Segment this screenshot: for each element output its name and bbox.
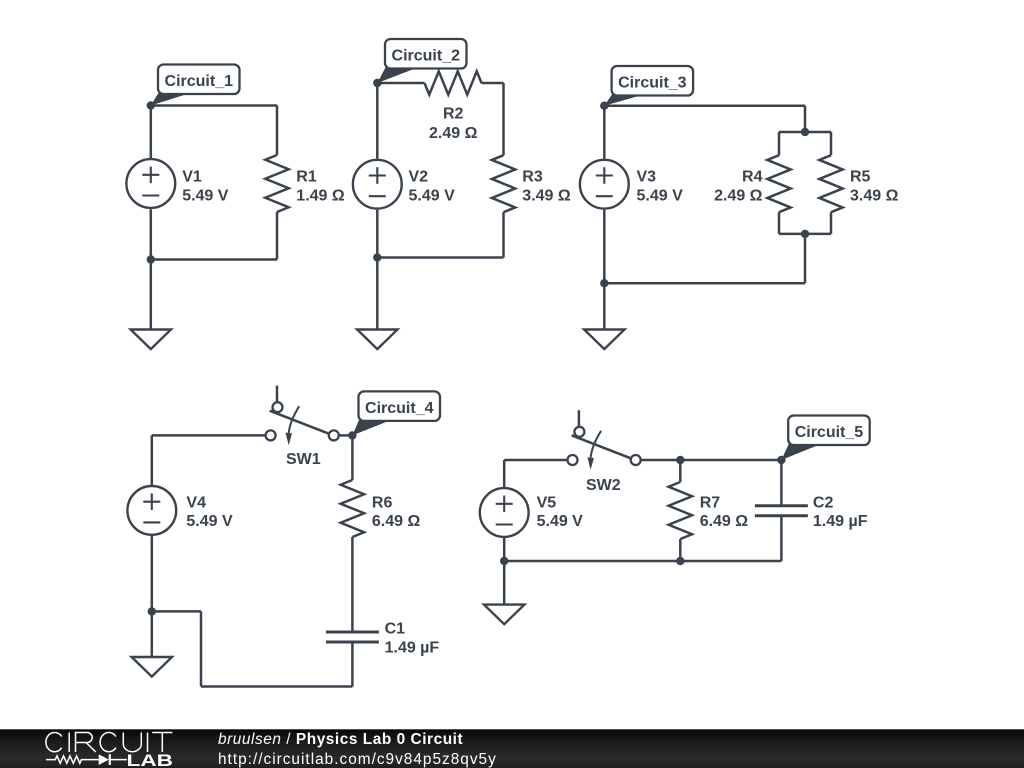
svg-text:3.49 Ω: 3.49 Ω <box>850 188 899 205</box>
svg-text:C1: C1 <box>385 621 406 638</box>
svg-text:R1: R1 <box>296 169 317 186</box>
svg-text:Circuit_4: Circuit_4 <box>365 400 434 417</box>
svg-text:bruulsen / Physics Lab 0 Circu: bruulsen / Physics Lab 0 Circuit <box>218 731 463 748</box>
svg-text:V3: V3 <box>637 169 657 186</box>
svg-text:5.49 V: 5.49 V <box>637 188 684 205</box>
svg-text:5.49 V: 5.49 V <box>182 188 229 205</box>
svg-text:R5: R5 <box>850 169 871 186</box>
svg-text:Circuit_2: Circuit_2 <box>392 47 461 64</box>
svg-text:R4: R4 <box>742 169 763 186</box>
svg-text:1.49 µF: 1.49 µF <box>385 639 440 656</box>
svg-text:C2: C2 <box>813 494 834 511</box>
svg-text:V4: V4 <box>186 494 206 511</box>
svg-text:V5: V5 <box>537 494 557 511</box>
svg-text:V1: V1 <box>182 169 202 186</box>
svg-text:5.49 V: 5.49 V <box>537 513 584 530</box>
svg-text:5.49 V: 5.49 V <box>186 513 233 530</box>
svg-text:Circuit_1: Circuit_1 <box>165 73 234 90</box>
svg-text:Circuit_5: Circuit_5 <box>795 424 864 441</box>
svg-text:SW1: SW1 <box>286 451 321 468</box>
svg-text:Circuit_3: Circuit_3 <box>618 74 687 91</box>
svg-text:R7: R7 <box>700 494 721 511</box>
svg-text:R2: R2 <box>443 105 464 122</box>
svg-text:LAB: LAB <box>127 752 174 768</box>
svg-text:R6: R6 <box>372 494 393 511</box>
svg-text:V2: V2 <box>409 169 429 186</box>
svg-text:SW2: SW2 <box>586 477 621 494</box>
svg-text:6.49 Ω: 6.49 Ω <box>700 513 749 530</box>
svg-text:3.49 Ω: 3.49 Ω <box>522 188 571 205</box>
svg-text:2.49 Ω: 2.49 Ω <box>714 188 763 205</box>
svg-text:6.49 Ω: 6.49 Ω <box>372 513 421 530</box>
svg-text:http://circuitlab.com/c9v84p5z: http://circuitlab.com/c9v84p5z8qv5y <box>218 751 497 768</box>
svg-text:2.49 Ω: 2.49 Ω <box>429 125 478 142</box>
svg-text:1.49 Ω: 1.49 Ω <box>296 188 345 205</box>
svg-text:1.49 µF: 1.49 µF <box>813 513 868 530</box>
svg-text:5.49 V: 5.49 V <box>409 188 456 205</box>
svg-text:R3: R3 <box>522 169 543 186</box>
